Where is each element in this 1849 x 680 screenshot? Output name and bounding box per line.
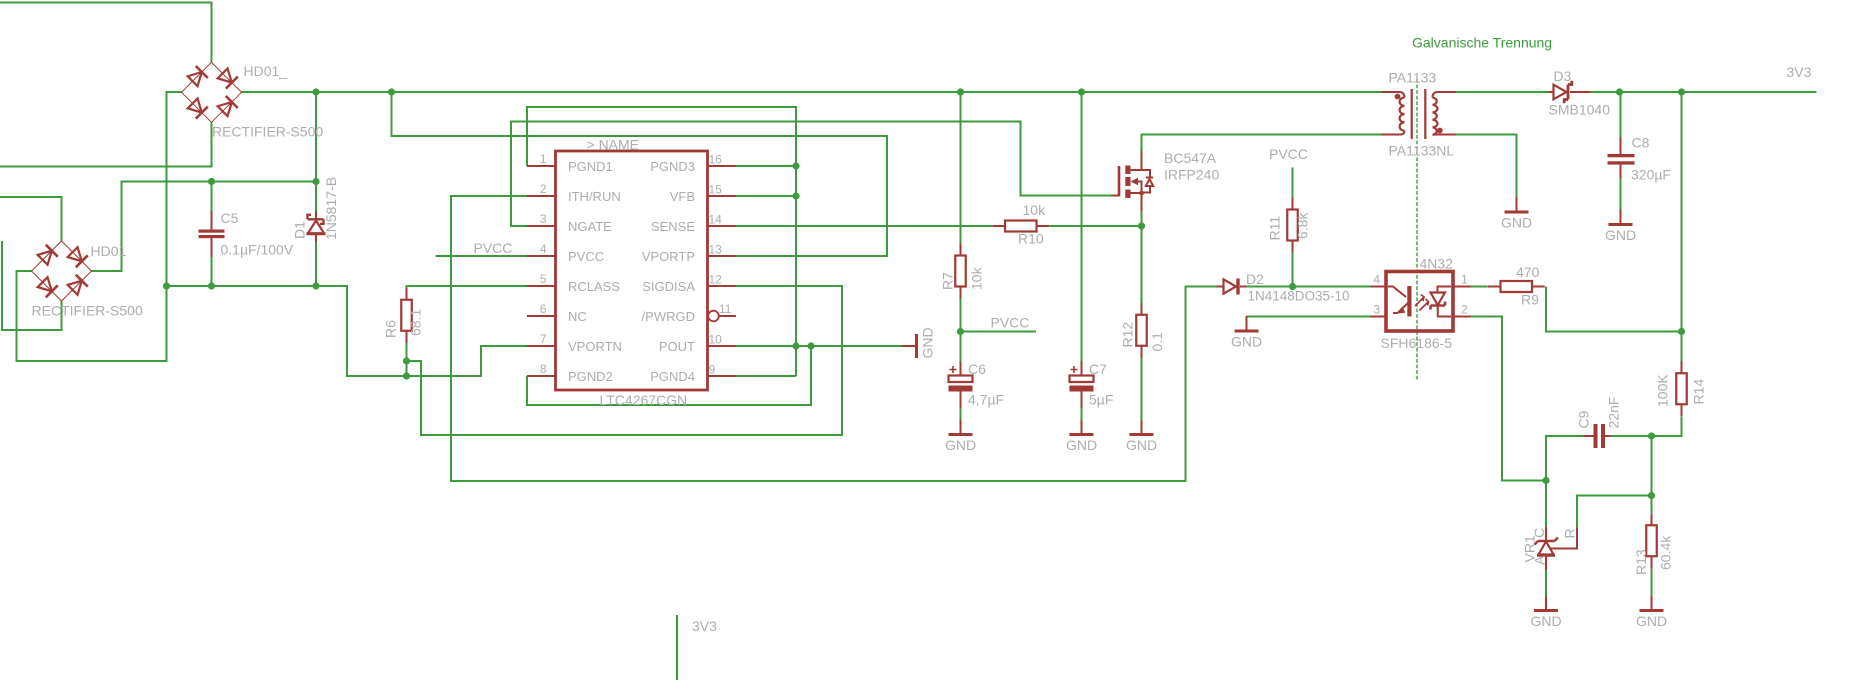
wire NGATE pin 3 to Q1 gate: [511, 122, 1111, 227]
resistor R14: [1676, 361, 1687, 416]
ground GND under R12: [1126, 420, 1157, 454]
svg-text:R14: R14: [1691, 379, 1707, 405]
wire VR1 ref jog to node B: [1577, 496, 1652, 528]
wire 3V3 net stub bottom centre: [676, 615, 678, 680]
junction dot at (960.5,331.5): [957, 328, 964, 335]
svg-text:R7: R7: [940, 272, 956, 290]
pin 13 U1 VPORTP: [642, 243, 736, 265]
svg-text:5µF: 5µF: [1089, 392, 1113, 408]
junction dot at (316,92): [312, 88, 319, 95]
rectifier HD01 (bridge): [32, 241, 92, 301]
wire C7 branch from main rail: [1081, 92, 1083, 362]
wire main VPORTP+ rail y=92 from HD01_ right corner to transformer primary: [242, 91, 1382, 93]
svg-text:> NAME: > NAME: [587, 137, 640, 153]
svg-text:A: A: [1532, 555, 1548, 565]
svg-text:4: 4: [540, 242, 547, 256]
resistor R10: [992, 221, 1049, 232]
svg-text:10: 10: [709, 333, 723, 347]
pin 3 U1 NGATE: [527, 212, 612, 234]
wire PGND4 pin 9: [736, 375, 796, 377]
svg-text:100K: 100K: [1655, 374, 1671, 407]
wire SENSE pin 14 to R10: [736, 225, 992, 227]
junction dot at (1141.5,226): [1138, 222, 1145, 229]
junction dot at (166.5,286): [163, 282, 170, 289]
pin 15 U1 VFB: [670, 183, 736, 205]
wire PGND2 pin 8 under-the-IC riser: [527, 346, 811, 405]
junction dot at (811,346): [807, 342, 814, 349]
svg-text:GND: GND: [1636, 613, 1667, 629]
ground GND under transformer secondary: [1501, 197, 1532, 231]
svg-text:SIGDISA: SIGDISA: [642, 279, 695, 294]
svg-text:1: 1: [540, 152, 547, 166]
svg-text:PA1133: PA1133: [1389, 70, 1437, 86]
wire PGND1 pin 1 over-the-top to PGND riser x=796: [527, 107, 796, 376]
svg-text:VPORTN: VPORTN: [568, 339, 622, 354]
svg-text:GND: GND: [1126, 437, 1157, 453]
junction dot at (1651.5,436): [1648, 432, 1655, 439]
svg-text:12: 12: [709, 273, 723, 287]
wire junction link R6 net: [406, 361, 408, 376]
svg-text:1N4148DO35-10: 1N4148DO35-10: [1248, 289, 1350, 304]
capacitor C8: [1608, 138, 1635, 179]
wire VR1 anode to GND: [1545, 570, 1547, 596]
pin 6 U1 NC: [527, 302, 587, 324]
wire HD01_ bottom corner to left edge: [0, 122, 212, 167]
svg-text:4N32: 4N32: [1420, 256, 1454, 272]
svg-text:VFB: VFB: [670, 189, 695, 204]
svg-text:PA1133NL: PA1133NL: [1389, 143, 1455, 159]
svg-text:0.1: 0.1: [1149, 332, 1165, 352]
svg-text:3: 3: [1373, 303, 1380, 317]
capacitor C6 (polarized): [949, 362, 973, 409]
wire top-left input loop to HD01_ top corner: [0, 3, 212, 63]
rectifier HD01_ (bridge): [182, 62, 242, 122]
pin 14 U1 SENSE: [651, 213, 736, 235]
svg-text:IRFP240: IRFP240: [1164, 167, 1219, 183]
pin 9 U1 PGND4: [650, 363, 736, 385]
wire R14 net from 3V3 rail down: [1681, 92, 1683, 362]
svg-text:BC547A: BC547A: [1164, 150, 1217, 166]
wire U2 pin 1 to R9: [1471, 286, 1488, 288]
svg-text:GND: GND: [1605, 227, 1636, 243]
svg-text:68.1: 68.1: [408, 309, 424, 336]
svg-text:10k: 10k: [969, 266, 985, 290]
svg-text:PGND4: PGND4: [650, 369, 695, 384]
svg-text:PGND2: PGND2: [568, 369, 613, 384]
svg-text:R12: R12: [1120, 322, 1136, 348]
svg-text:POUT: POUT: [659, 339, 695, 354]
junction dot at (1546,480.5): [1542, 477, 1549, 484]
diode D3 SMB1040 (schottky, pointing right): [1549, 81, 1591, 103]
ground sideways GND at POUT: [902, 327, 936, 358]
wire HD01 bottom corner loop to left edge: [2, 241, 62, 330]
svg-text:8: 8: [540, 362, 547, 376]
svg-text:R: R: [1562, 528, 1578, 538]
svg-text:LTC4267CGN: LTC4267CGN: [600, 392, 688, 408]
svg-text:15: 15: [709, 183, 723, 197]
svg-text:GND: GND: [945, 437, 976, 453]
svg-text:0.1µF/100V: 0.1µF/100V: [221, 242, 294, 258]
capacitor C9 (horizontal): [1584, 424, 1611, 448]
svg-text:3V3: 3V3: [1787, 64, 1812, 80]
pin 1 U1 PGND1: [527, 152, 613, 174]
junction dot at (1681.5,92): [1678, 88, 1685, 95]
wire C8 bottom to GND: [1620, 179, 1622, 210]
resistor R6: [401, 288, 412, 343]
svg-text:ITH/RUN: ITH/RUN: [568, 189, 621, 204]
svg-text:4,7µF: 4,7µF: [968, 392, 1004, 408]
diode D1 1N5817-B (schottky, pointing up): [307, 211, 326, 242]
svg-text:11: 11: [719, 302, 732, 316]
svg-text:PVCC: PVCC: [568, 249, 604, 264]
ground GND under C7: [1066, 420, 1097, 454]
svg-text:C7: C7: [1089, 361, 1107, 377]
svg-text:R6: R6: [383, 320, 399, 338]
junction dot at (796,166): [792, 162, 799, 169]
svg-text:GND: GND: [920, 327, 936, 358]
svg-text:GND: GND: [1231, 334, 1262, 350]
svg-text:PGND1: PGND1: [568, 159, 613, 174]
svg-text:D1: D1: [292, 221, 308, 239]
svg-text:1: 1: [1461, 273, 1468, 287]
svg-text:C6: C6: [968, 361, 986, 377]
svg-text:6.8k: 6.8k: [1295, 212, 1311, 239]
ground GND at U2 pin 3 / D2 net: [1231, 316, 1262, 350]
svg-text:RECTIFIER-S500: RECTIFIER-S500: [32, 303, 143, 319]
svg-text:R13: R13: [1633, 549, 1649, 575]
pin 10 U1 POUT: [659, 333, 736, 355]
svg-text:Galvanische Trennung: Galvanische Trennung: [1412, 35, 1552, 51]
svg-text:D2: D2: [1246, 271, 1264, 287]
svg-text:RCLASS: RCLASS: [568, 279, 620, 294]
svg-text:C: C: [1531, 528, 1547, 538]
ground GND under VR1: [1530, 596, 1561, 630]
svg-text:SENSE: SENSE: [651, 219, 695, 234]
wire PVCC node to C6: [960, 332, 962, 362]
ground GND under C8: [1605, 210, 1636, 244]
wire HD01 top corner to left edge: [0, 197, 62, 241]
capacitor C5: [199, 211, 225, 257]
svg-text:4: 4: [1373, 273, 1380, 287]
ground GND under C6: [945, 420, 976, 454]
svg-text:NGATE: NGATE: [568, 219, 612, 234]
wire Q1 source node down to R12: [1141, 211, 1143, 303]
pin 16 U1 PGND3: [650, 153, 736, 175]
resistor R9: [1488, 281, 1545, 292]
junction dot at (1081.5,92): [1078, 88, 1085, 95]
svg-text:R10: R10: [1018, 231, 1044, 247]
svg-text:7: 7: [540, 332, 547, 346]
junction dot at (316,181.5): [312, 178, 319, 185]
wire VFB pin 15: [736, 195, 796, 197]
resistor R13: [1646, 513, 1657, 568]
ground GND under R13: [1636, 596, 1667, 630]
junction dot at (211.5,286): [208, 282, 215, 289]
diode D2 1N4148 (pointing right): [1217, 279, 1247, 295]
wire C5 top stub: [211, 182, 213, 212]
svg-text:470: 470: [1516, 264, 1540, 280]
wire PVCC node label stub: [961, 331, 1037, 333]
wire PGND3 pin 16: [736, 165, 796, 167]
wire R7 bottom to PVCC node: [960, 299, 962, 332]
wire C9 right to node A: [1611, 435, 1652, 437]
svg-text:RECTIFIER-S500: RECTIFIER-S500: [212, 124, 323, 140]
svg-text:/PWRGD: /PWRGD: [642, 309, 695, 324]
svg-text:16: 16: [709, 153, 723, 167]
wire C8 top from 3V3 rail: [1620, 92, 1622, 138]
wire VPORTP pin 13 via x=887 riser to main rail: [392, 92, 888, 256]
wire D1 anode down to bottom rail: [315, 242, 317, 286]
junction dot at (1681.5,331.5): [1678, 328, 1685, 335]
svg-text:C8: C8: [1632, 135, 1650, 151]
svg-text:3: 3: [540, 212, 547, 226]
wire R6 bottom to junction: [406, 340, 408, 361]
wire R10 to Q1 source node: [1050, 225, 1142, 227]
svg-text:D3: D3: [1554, 68, 1572, 84]
svg-text:C9: C9: [1576, 410, 1592, 428]
wire C7 bottom to GND: [1081, 408, 1083, 420]
wire main rail drop to D1 cathode rail at x=316: [315, 92, 317, 182]
wire pin2 node down to VR1 cathode: [1545, 481, 1547, 527]
pin 7 U1 VPORTN: [527, 332, 622, 354]
svg-text:13: 13: [709, 243, 723, 257]
wire HD01_ left corner down, box to HD01 left corner: [17, 92, 182, 361]
junction dot at (316,286): [312, 282, 319, 289]
wire node A down through node B to R13: [1651, 436, 1653, 513]
junction dot at (1651.5,495.5): [1648, 492, 1655, 499]
wire R6 junction to SIGDISA pin 12: [407, 286, 843, 435]
wire C6 bottom to GND: [960, 408, 962, 420]
optocoupler U2 4N32 / SFH6186-5: [1371, 272, 1471, 332]
svg-text:R9: R9: [1521, 292, 1539, 308]
svg-text:60.4k: 60.4k: [1658, 535, 1674, 570]
pin 2 U1 ITH/RUN: [527, 182, 621, 204]
voltage reference VR1 (TL431-style): [1535, 527, 1578, 571]
svg-text:SFH6186-5: SFH6186-5: [1381, 335, 1453, 351]
pin 5 U1 RCLASS: [527, 272, 620, 294]
wire R13 bottom to GND: [1651, 568, 1653, 596]
transformer TR1 PA1133: [1381, 89, 1456, 139]
pin 4 U1 PVCC: [527, 242, 604, 264]
wire 3V3 rail: D3 cathode to right end: [1591, 91, 1817, 93]
junction dot at (391.5,92): [388, 88, 395, 95]
svg-text:HD01: HD01: [91, 243, 127, 259]
wire PVCC label stub to U1 pin 4: [436, 255, 528, 257]
svg-text:HD01_: HD01_: [244, 63, 288, 79]
wire R7 top from main rail: [960, 92, 962, 244]
wire HD01 right corner up to C5/D1 top rail y=181.5: [92, 182, 317, 272]
svg-text:VPORTP: VPORTP: [642, 249, 695, 264]
wire U2 pin 2 down to C9/VR1 node: [1471, 317, 1547, 481]
wire D1 cathode stub from rail: [315, 182, 317, 213]
svg-text:GND: GND: [1066, 437, 1097, 453]
wire galvanic isolation dashed boundary: [1416, 79, 1418, 381]
svg-text:PGND3: PGND3: [650, 159, 695, 174]
junction dot at (960.5,92): [957, 88, 964, 95]
svg-text:10k: 10k: [1023, 202, 1047, 218]
junction dot at (796,346): [792, 342, 799, 349]
junction dot at (406.5,376): [403, 372, 410, 379]
svg-text:22nF: 22nF: [1606, 397, 1622, 429]
svg-text:5: 5: [540, 272, 547, 286]
svg-text:9: 9: [709, 363, 716, 377]
wire bottom rail y=286 to VPORTN pin 7 of U1: [167, 286, 528, 376]
svg-text:320µF: 320µF: [1631, 167, 1671, 183]
wire ITH/RUN pin 2 long run to D2 anode: [451, 196, 1217, 481]
svg-text:SMB1040: SMB1040: [1549, 102, 1611, 118]
wire R14 bottom leg to node A: [1652, 417, 1682, 437]
wire R12 bottom to GND: [1141, 358, 1143, 420]
resistor R7: [955, 244, 966, 299]
svg-text:3V3: 3V3: [692, 618, 717, 634]
junction dot at (1292.5,286.5): [1289, 283, 1296, 290]
wire C5 bottom stub: [211, 257, 213, 286]
svg-text:R11: R11: [1267, 216, 1283, 241]
resistor R11: [1287, 198, 1298, 253]
pin 11 U1 /PWRGD: [642, 302, 736, 324]
pin 12 U1 SIGDISA: [642, 273, 736, 295]
junction dot at (406.5,361): [403, 357, 410, 364]
wire POUT pin 10 to sideways GND: [736, 345, 902, 347]
svg-text:14: 14: [709, 213, 723, 227]
svg-text:2: 2: [540, 182, 547, 196]
wire R11 bottom to D2 net: [1292, 253, 1294, 287]
svg-text:6: 6: [540, 302, 547, 316]
svg-text:C5: C5: [221, 210, 239, 226]
junction dot at (211.5,181.5): [208, 178, 215, 185]
wire R9 jog to R14 net: [1546, 287, 1682, 332]
svg-text:GND: GND: [1501, 215, 1532, 231]
svg-text:2: 2: [1461, 303, 1468, 317]
wire C9 left to pin2 node: [1546, 436, 1584, 481]
wire Q1 drain to transformer primary bottom: [1142, 135, 1382, 152]
pin 8 U1 PGND2: [527, 362, 613, 384]
wire D2 cathode to U2 pin 4: [1247, 286, 1371, 288]
resistor R12: [1136, 303, 1147, 358]
svg-text:GND: GND: [1530, 613, 1561, 629]
wire transformer secondary bottom to GND: [1456, 135, 1517, 198]
wire R11 top from PVCC label: [1292, 168, 1294, 198]
svg-text:PVCC: PVCC: [991, 315, 1030, 331]
junction dot at (796,196): [792, 192, 799, 199]
op-amp/controller U1 LTC4267CGN body: [556, 151, 708, 390]
wire 3V3 rail: transformer secondary top to D3 anode: [1456, 91, 1549, 93]
junction dot at (1619.5,92): [1616, 88, 1623, 95]
wire RCLASS pin 5 to R6 top: [407, 286, 528, 290]
svg-text:NC: NC: [568, 309, 587, 324]
transistor Q1 (BC547A / IRFP240 nmos): [1111, 151, 1153, 211]
svg-text:PVCC: PVCC: [474, 240, 513, 256]
wire U2 pin 3 to GND corner: [1247, 316, 1371, 318]
capacitor C7 (polarized): [1070, 362, 1094, 409]
svg-text:PVCC: PVCC: [1269, 146, 1308, 162]
svg-text:1N5817-B: 1N5817-B: [323, 177, 339, 240]
